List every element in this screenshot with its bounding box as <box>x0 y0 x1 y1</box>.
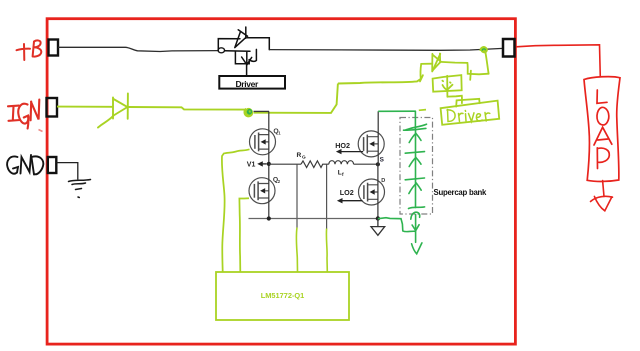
sense wire left green <box>296 228 297 272</box>
label +B <box>17 40 42 60</box>
svg-text:2: 2 <box>278 179 281 184</box>
wire Q1 drain vertical <box>268 111 270 163</box>
knot on +B rail <box>480 46 487 53</box>
sense wire right gray <box>326 164 328 228</box>
svg-text:G: G <box>302 155 306 161</box>
label S <box>380 157 385 164</box>
node S <box>376 162 380 166</box>
junction blob on +B rail <box>218 48 225 53</box>
label V1 with arrow <box>247 161 267 168</box>
supercap string <box>404 111 427 219</box>
sketch diode D2 <box>420 52 489 81</box>
terminal +B right <box>503 39 515 57</box>
mosfet Q2 <box>249 178 275 204</box>
wire V1 to Rg <box>269 163 301 165</box>
svg-text:LM51772-Q1: LM51772-Q1 <box>261 291 305 300</box>
label IGN <box>8 100 39 129</box>
bottom rail <box>249 218 378 220</box>
wire Lf to S node <box>354 163 378 165</box>
wire +B rail right <box>269 48 503 50</box>
svg-text:V1: V1 <box>247 161 256 168</box>
terminal IGN <box>47 98 58 117</box>
wire Q2 vertical <box>268 164 270 218</box>
top rail black stub <box>254 110 270 112</box>
supercap ground arrow <box>412 243 422 254</box>
driver box (black) <box>219 76 285 89</box>
node bottom left <box>267 216 271 220</box>
label Q2 <box>273 177 281 184</box>
wire riser to diode sketch <box>338 79 421 84</box>
load box <box>584 77 620 182</box>
supercap drop wire <box>412 215 419 243</box>
ground symbol <box>371 219 385 236</box>
wire IGN chartreuse <box>57 106 113 108</box>
svg-text:Supercap bank: Supercap bank <box>434 188 488 197</box>
red tick under IGN <box>39 130 43 132</box>
mosfet LO2 <box>359 179 385 205</box>
ground earth sketch <box>69 180 91 198</box>
svg-text:f: f <box>342 172 344 178</box>
chartreuse stub <box>419 109 426 112</box>
wire load red <box>516 45 600 78</box>
wire Q1 gate green <box>222 149 250 271</box>
svg-text:R: R <box>297 152 302 159</box>
label Lf <box>338 170 344 178</box>
label Supercap bank <box>434 188 488 197</box>
node bottom right <box>376 216 380 220</box>
terminal GND <box>48 157 57 173</box>
resistor Rg <box>301 161 329 168</box>
svg-text:LO2: LO2 <box>340 188 354 197</box>
wire Q2 gate green <box>239 198 249 271</box>
transistor sketch (reverse protection PMOS) <box>218 27 269 76</box>
label GND <box>7 155 43 175</box>
label LO2 with arrow <box>337 188 363 203</box>
label D <box>381 178 385 184</box>
wire HO2 drain to supercap <box>378 110 415 112</box>
junction knot <box>244 108 252 116</box>
wire LO2 vertical <box>377 164 379 218</box>
svg-text:HO2: HO2 <box>335 141 350 150</box>
terminal +B <box>49 40 59 56</box>
load ground arrow <box>591 181 613 211</box>
border frame <box>47 19 515 344</box>
controller box LM51772-Q1 <box>216 272 349 320</box>
svg-text:D: D <box>381 178 385 184</box>
mosfet HO2 <box>358 131 384 157</box>
wire IGN to node <box>128 107 246 110</box>
diode D1 on IGN line <box>98 94 128 128</box>
inductor Lf <box>329 161 354 165</box>
driver box (green) <box>441 99 500 125</box>
wire knot to riser <box>254 84 338 113</box>
wire HO2 drain vertical <box>377 111 379 164</box>
sense wire right green <box>325 229 328 272</box>
svg-text:1: 1 <box>278 130 281 135</box>
sketch diode D3 (box) <box>433 75 462 103</box>
mosfet Q1 <box>250 129 276 155</box>
wire +B rail left <box>58 47 218 51</box>
wire GND to earth <box>57 163 78 180</box>
node V1 <box>267 162 271 166</box>
label Rg <box>297 152 307 160</box>
supercap bottom wire <box>378 218 415 232</box>
label HO2 with arrow <box>335 141 363 155</box>
svg-text:Driver: Driver <box>236 79 260 89</box>
svg-text:S: S <box>380 157 385 164</box>
sense wire left gray <box>296 164 298 227</box>
label Q1 <box>273 128 281 135</box>
supercap dashed box <box>400 118 433 215</box>
handwriting Driver (green) <box>447 110 490 122</box>
